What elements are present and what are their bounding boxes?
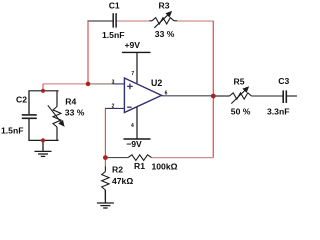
wire op-amp output to node [162,95,213,97]
svg-text:7: 7 [131,71,134,77]
wire right vertical x=213 (top rail down to output node and feedback corner) [212,21,214,158]
node output junction [211,94,216,99]
wire C3 to right edge [287,95,297,97]
svg-text:+9V: +9V [125,40,141,50]
capacitor C3 [282,90,284,103]
svg-text:R2: R2 [112,165,123,175]
potentiometer R4 [53,107,61,128]
wire R5 to C3 [252,95,283,97]
node junction C2/R4 bottom / ground [41,138,45,142]
wire down to C2/R4 top node [42,84,44,91]
node: C2/R4 parallel top bar [28,90,58,92]
wire output node to R5 [216,95,230,97]
ground below C2/R4 [42,140,44,151]
wire C2/R4 node to junction (red) [43,83,88,85]
node junction at left rail [86,82,91,87]
node feedback junction [103,155,108,160]
wire R1 to bottom-right corner (red) [152,157,214,159]
node junction C2/R4 top [41,89,45,93]
svg-text:R5: R5 [234,76,245,86]
wire feedback node to R1 (dark) [105,157,128,159]
svg-text:C2: C2 [16,95,27,105]
node: C2/R4 parallel bottom bar [28,139,58,141]
svg-text:33 %: 33 % [65,108,85,118]
svg-text:6: 6 [165,90,168,96]
wire R3 to top-right corner (red) [177,20,214,22]
svg-text:−9V: −9V [126,139,142,149]
svg-text:33 %: 33 % [155,29,175,39]
svg-text:100kΩ: 100kΩ [152,161,178,171]
svg-text:47kΩ: 47kΩ [112,176,133,186]
svg-text:2: 2 [112,104,115,110]
wire + input stub [113,83,125,85]
resistor R2 [102,172,109,191]
-9V supply rail [124,138,151,140]
potentiometer R5 [230,93,252,99]
wire R2 top lead [104,167,106,172]
wire C1 to R3 (red) [117,20,150,22]
wire feedback node down to R2 (red stub) [104,158,106,167]
wire top-left corner to C1 (dark) [88,21,113,22]
svg-text:R1: R1 [134,161,145,171]
svg-text:C1: C1 [109,1,120,11]
wire R3 lead left [150,20,153,22]
resistor R1 [128,155,152,161]
wire op-amp - input corner down to feedback node [104,108,107,157]
potentiometer R3 [152,18,174,24]
svg-text:R3: R3 [159,1,170,11]
svg-text:1.5nF: 1.5nF [1,126,23,136]
wire R3 lead right [174,20,178,22]
op-amp U2 [124,78,161,113]
svg-text:3: 3 [112,79,115,85]
svg-text:1.5nF: 1.5nF [102,30,124,40]
capacitor C1 [112,13,114,27]
wire junction to op-amp + input (grey-red) [88,83,114,85]
wire left vertical x=88 [87,21,89,84]
wire - input stub [105,107,124,109]
svg-text:3.3nF: 3.3nF [267,107,289,117]
+9V supply rail [122,51,151,53]
svg-text:C3: C3 [278,76,289,86]
svg-text:4: 4 [131,123,134,129]
capacitor C2 [28,91,30,114]
svg-text:R4: R4 [65,97,76,107]
svg-text:50 %: 50 % [231,106,251,116]
ground below R2 [104,190,106,203]
svg-text:U2: U2 [151,78,162,88]
